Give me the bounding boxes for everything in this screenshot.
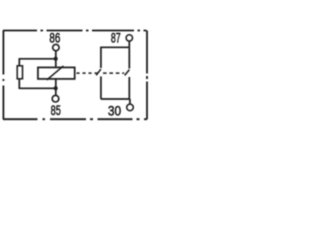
svg-text:85: 85 — [51, 103, 61, 119]
svg-text:87: 87 — [111, 30, 121, 46]
svg-text:30: 30 — [108, 103, 121, 119]
svg-text:86: 86 — [49, 30, 60, 46]
